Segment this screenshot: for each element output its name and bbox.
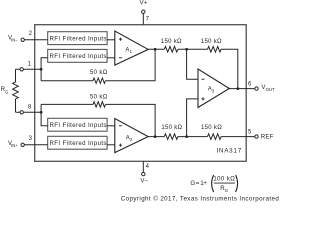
resistor 150k (to REF) bbox=[201, 125, 222, 139]
pin 4 circle bbox=[142, 172, 145, 175]
svg-text:RFI Filtered Inputs: RFI Filtered Inputs bbox=[50, 140, 107, 147]
wire to REF pin 5 bbox=[221, 136, 255, 138]
outer IC boundary box bbox=[35, 25, 247, 162]
pin 5 circle bbox=[255, 135, 258, 138]
pin 3 wire bbox=[24, 144, 47, 146]
wire RFI block1 to A1 + input bbox=[107, 39, 115, 41]
svg-text:V+: V+ bbox=[140, 1, 148, 7]
svg-text:RFI Filtered Inputs: RFI Filtered Inputs bbox=[50, 35, 107, 42]
svg-text:150 kΩ: 150 kΩ bbox=[161, 125, 182, 131]
node A3 + input junction bbox=[185, 135, 188, 138]
wire RFI block3 to A2 - input bbox=[107, 125, 115, 127]
wire node to A3 - input bbox=[187, 49, 198, 79]
wire RFI block4 to A2 + input bbox=[107, 144, 115, 146]
wire A2 output bbox=[148, 136, 164, 138]
resistor 150k (A1 out to A3 -) bbox=[161, 39, 182, 52]
pin 1 circle bbox=[20, 68, 23, 71]
svg-text:50 kΩ: 50 kΩ bbox=[90, 70, 108, 76]
svg-text:IN−: IN− bbox=[11, 37, 18, 42]
pin 1 wire bbox=[16, 68, 42, 70]
pin 2 wire bbox=[24, 39, 47, 41]
Vout label bbox=[261, 85, 275, 92]
Vin+ label bbox=[8, 141, 18, 148]
svg-text:OUT: OUT bbox=[266, 87, 275, 92]
node A1 output bbox=[154, 48, 157, 51]
wire pin1 node up to RFI block 2 bbox=[41, 58, 48, 81]
wire feedback to output node bbox=[221, 49, 238, 88]
pin 3 circle bbox=[21, 143, 24, 146]
svg-text:INA317: INA317 bbox=[216, 148, 242, 155]
RFI filter block 1 (to A1 +) bbox=[48, 32, 107, 45]
node output feedback junction bbox=[236, 87, 239, 90]
svg-text:G: G bbox=[190, 180, 195, 187]
svg-text:V−: V− bbox=[140, 179, 148, 185]
wire between top 150k resistors bbox=[178, 48, 208, 50]
resistor 50k (A1 feedback) bbox=[41, 49, 155, 83]
node A2 output bbox=[154, 135, 157, 138]
pin 4 wire bbox=[142, 161, 144, 172]
svg-text:+: + bbox=[203, 180, 207, 187]
wire A1 output bbox=[148, 48, 164, 50]
svg-text:RFI Filtered Inputs: RFI Filtered Inputs bbox=[50, 53, 107, 60]
pin 2 circle bbox=[21, 38, 24, 41]
pin 7 circle bbox=[142, 10, 145, 13]
node at pin 8 bbox=[40, 111, 43, 114]
svg-text:RFI Filtered Inputs: RFI Filtered Inputs bbox=[50, 122, 107, 129]
svg-text:IN+: IN+ bbox=[11, 143, 18, 148]
resistor RG (external) bbox=[13, 69, 19, 112]
op-amp A1 bbox=[115, 31, 148, 65]
resistor 150k (A2 out to A3 +) bbox=[161, 125, 182, 139]
op-amp A3 bbox=[198, 69, 229, 108]
svg-text:150 kΩ: 150 kΩ bbox=[161, 39, 182, 45]
wire pin8 node down to RFI block 3 bbox=[41, 104, 48, 125]
gain equation bbox=[190, 175, 237, 193]
svg-text:REF: REF bbox=[261, 133, 274, 140]
node A3 - input junction bbox=[185, 48, 188, 51]
wire RFI block2 to A1 - input bbox=[107, 57, 115, 59]
pin 8 circle bbox=[20, 111, 23, 114]
svg-text:50 kΩ: 50 kΩ bbox=[90, 95, 108, 101]
node at pin 1 bbox=[40, 68, 43, 71]
RFI filter block 2 (to A1 -) bbox=[48, 49, 107, 62]
Vin- label bbox=[8, 35, 18, 42]
op-amp A2 bbox=[115, 119, 148, 153]
resistor 50k (A2 feedback) bbox=[41, 95, 155, 137]
pin 6 circle bbox=[255, 87, 258, 90]
RG value label bbox=[1, 87, 9, 94]
svg-text:Copyright © 2017, Texas Instru: Copyright © 2017, Texas Instruments Inco… bbox=[121, 195, 280, 202]
wire between bottom 150k resistors bbox=[178, 136, 208, 138]
svg-text:=: = bbox=[196, 180, 200, 187]
wire A3 output to pin 6 bbox=[229, 88, 255, 90]
svg-text:150 kΩ: 150 kΩ bbox=[201, 39, 222, 45]
RFI filter block 4 (to A2 +) bbox=[48, 136, 107, 149]
RFI filter block 3 (to A2 -) bbox=[48, 118, 107, 131]
svg-text:100 kΩ: 100 kΩ bbox=[213, 176, 235, 183]
pin 7 wire bbox=[142, 13, 144, 24]
svg-text:150 kΩ: 150 kΩ bbox=[201, 125, 222, 131]
pin 8 wire bbox=[16, 111, 42, 113]
resistor 150k (feedback to Vout) bbox=[201, 39, 222, 52]
wire node to A3 + input bbox=[187, 99, 198, 137]
